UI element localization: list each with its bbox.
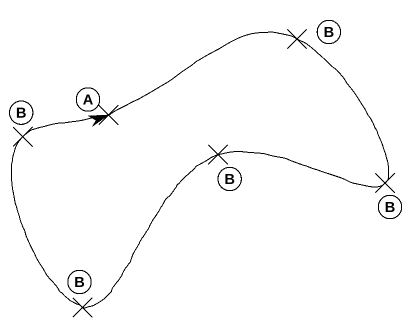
fit point left : X marker (13, 127, 32, 146)
closed spline curve through six fit points (11, 32, 388, 308)
label left B : circled letter B (10, 101, 33, 124)
label A : circled letter A (76, 88, 99, 111)
label middle B : circled letter B (218, 167, 241, 190)
fit point bottom : X marker (73, 298, 92, 317)
fit point top-right : X marker (287, 29, 306, 48)
fit point right : X marker (376, 173, 395, 192)
label bottom B : circled letter B (68, 270, 91, 293)
label right B : circled letter B (378, 195, 401, 218)
direction arrowhead at point A (88, 115, 109, 127)
fit point middle : X marker (208, 145, 227, 164)
label top-right B : circled letter B (317, 20, 340, 43)
fit point A (start point) : X marker (99, 105, 118, 124)
